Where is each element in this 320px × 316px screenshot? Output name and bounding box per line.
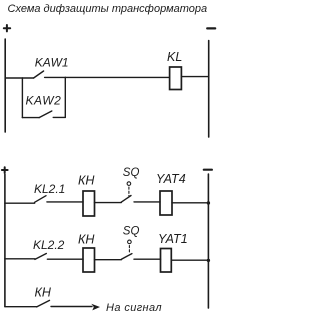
svg-text:KAW2: KAW2 (26, 94, 62, 108)
svg-text:SQ: SQ (123, 226, 140, 238)
svg-text:KL2.2: KL2.2 (33, 238, 65, 252)
svg-text:КН: КН (35, 286, 52, 300)
svg-text:KL2.1: KL2.1 (34, 182, 65, 196)
svg-text:КН: КН (78, 233, 95, 247)
svg-text:YAT1: YAT1 (158, 232, 188, 246)
svg-text:КН: КН (78, 174, 95, 188)
svg-text:YAT4: YAT4 (156, 172, 186, 186)
svg-text:На сигнал: На сигнал (106, 302, 162, 314)
svg-text:KAW1: KAW1 (35, 56, 69, 70)
svg-text:SQ: SQ (123, 167, 140, 179)
svg-text:KL: KL (167, 50, 182, 64)
svg-text:Схема дифзащиты трансформатора: Схема дифзащиты трансформатора (8, 3, 208, 15)
